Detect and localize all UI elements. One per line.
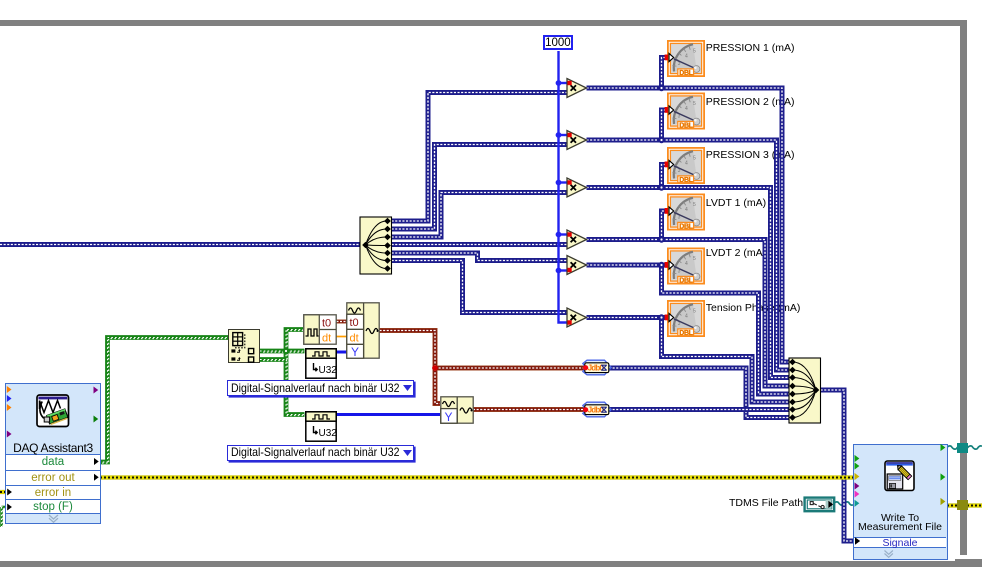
TDMS File Path control [803,496,837,513]
DAQ Assistant icon [36,394,70,428]
gauge indicator PRESSION 1 (mA) [668,41,704,77]
wire Build Waveform output to Y builder [380,331,441,404]
splitter: signal fan-out node [360,217,392,274]
wire saved file path to right pane [946,446,982,449]
wire waveform to convert1 [435,366,584,371]
build waveform Y node [440,396,474,424]
wire M6 to merge input6 [662,318,790,403]
wire 1000 branch to M4 [559,233,568,235]
Write To Measurement File icon [884,460,915,492]
pane splitter bar bottom [0,561,982,567]
wire 1000 branch to M1 [559,82,568,84]
junction 1000 wire at M4 [556,232,562,238]
wire Y array to Build Waveform [336,351,347,354]
wire error out from DAQ to Write To Measurement File [100,475,853,479]
wire error in stub [0,490,7,494]
wire M6 output to gauge Tension Phase [587,315,668,320]
numeric constant 1000 [543,35,573,50]
wire M5 to merge input5 [662,265,790,394]
wire M1 output to merge input1 [587,88,790,362]
wire DAQ data to digital block [99,338,230,464]
multiply M5 [567,256,587,275]
DAQ Assistant3 express VI [5,383,101,524]
junction waveform wire [432,365,438,371]
multiply M4 [567,230,587,249]
multiply M1 [567,79,587,98]
wire stop input stub [2,507,8,508]
junction 1000 wire at M5 [556,268,562,274]
junction 1000 wire at M3 [556,180,562,186]
wire convert2 output to merge input7 [609,407,789,412]
label PRESSION 3 (mA) [706,149,795,161]
wire merge output to Write To Measurement File Signale input [817,390,853,541]
wire branch to gauge PRESSION 2 [662,110,668,140]
wire 1000 branch to M2 [559,134,568,136]
wire t0 timestamp [337,320,347,324]
junction 1000 wire at M1 [556,80,562,86]
terminal input of gauge indicator LVDT 1 (mA) [665,207,674,215]
multiply M2 [567,131,587,150]
wire splitter out4 to multiply M4 lower input [388,242,567,247]
multiply M6 [567,308,587,327]
wire 1000 branch to M3 [559,181,568,183]
junction M3 output [658,184,664,190]
label LVDT 1 (mA) [706,197,766,209]
wire Y builder output to convert2 [473,407,584,412]
terminal input of gauge indicator PRESSION 1 (mA) [665,53,674,61]
terminal input of gauge indicator LVDT 2 (mA) [665,261,674,269]
gauge indicator LVDT 1 (mA) [668,194,704,230]
wire splitter out2 to multiply M2 lower input [388,145,567,230]
splitter corner piece [955,559,982,567]
wire digital block out1 to U32 converter1 [260,351,306,352]
digital waveform components block [228,329,260,363]
multiply M3 [567,178,587,197]
label Tension Phase (mA) [706,302,801,314]
gauge indicator PRESSION 3 (mA) [668,148,704,184]
wire branch to gauge PRESSION 3 [662,165,668,188]
wire M3 output to merge input3 [587,188,790,378]
wire branch to U32 converter2 [286,351,306,416]
wire stop stub vertical [2,507,3,528]
label PRESSION 1 (mA) [706,42,795,54]
wire dynamic-data input from left edge to splitter [0,242,360,247]
merge signals node [789,358,821,423]
wire M5 output to gauge LVDT 2 [587,263,668,268]
junction green digital wire [283,348,289,354]
wire numeric 1000 vertical feed [559,51,568,323]
label PRESSION 2 (mA) [706,96,795,108]
wire 1000 branch to M5 [559,269,568,271]
terminal input of gauge indicator PRESSION 2 (mA) [665,106,674,114]
wire TDMS file path to Write block [833,502,853,505]
wire splitter out6 to multiply M6 upper input [388,261,567,313]
junction M6 output [658,314,664,320]
wire splitter out3 to multiply M3 lower input [388,193,567,238]
label LVDT 2 (mA) [706,247,766,259]
ring constant Digital-Signalverlauf nach binaer U32 (1) [227,380,414,396]
digital to binary U32 converter 2 [305,411,337,442]
wire digital block out2 [260,360,287,361]
terminal input of gauge indicator Tension Phase (mA) [665,313,674,321]
wire U32 array to Y builder [336,413,440,416]
build waveform node [346,302,380,359]
digital to binary U32 converter 1 [305,348,337,379]
wire convert1 output to merge input8 [609,368,789,418]
get waveform components node [303,314,337,345]
pane splitter bar top [0,20,967,26]
wire splitter out1 to multiply M1 lower input [388,93,567,222]
gauge indicator PRESSION 2 (mA) [668,93,704,129]
tunnel square path wire [957,443,968,453]
ring constant Digital-Signalverlauf nach binaer U32 (2) [227,445,414,461]
junction M2 output [658,137,664,143]
gauge indicator LVDT 2 (mA) [668,248,704,284]
wire branch to Get Waveform Components [286,330,304,353]
convert to dynamic data 2 [580,401,613,419]
pane splitter bar right [960,20,967,556]
label TDMS File Path [729,497,803,509]
convert to dynamic data 1 [580,359,613,377]
wire branch to gauge PRESSION 1 [662,58,668,89]
wire branch to gauge LVDT 1 [662,211,668,240]
wire M4 output to merge input4 [587,240,790,387]
tunnel square error wire [957,500,968,510]
wire error out to right pane [947,503,982,507]
junction M4 output [658,236,664,242]
wire M2 output to merge input2 [587,140,790,370]
wire dt float [337,336,347,338]
junction M1 output [658,85,664,91]
wire splitter out5 to multiply M5 upper input [388,253,567,261]
junction M5 output [658,262,664,268]
Write To Measurement File express VI [853,444,948,560]
junction 1000 wire at M2 [556,132,562,138]
terminal input of gauge indicator PRESSION 3 (mA) [665,160,674,168]
gauge indicator Tension Phase (mA) [668,301,704,337]
